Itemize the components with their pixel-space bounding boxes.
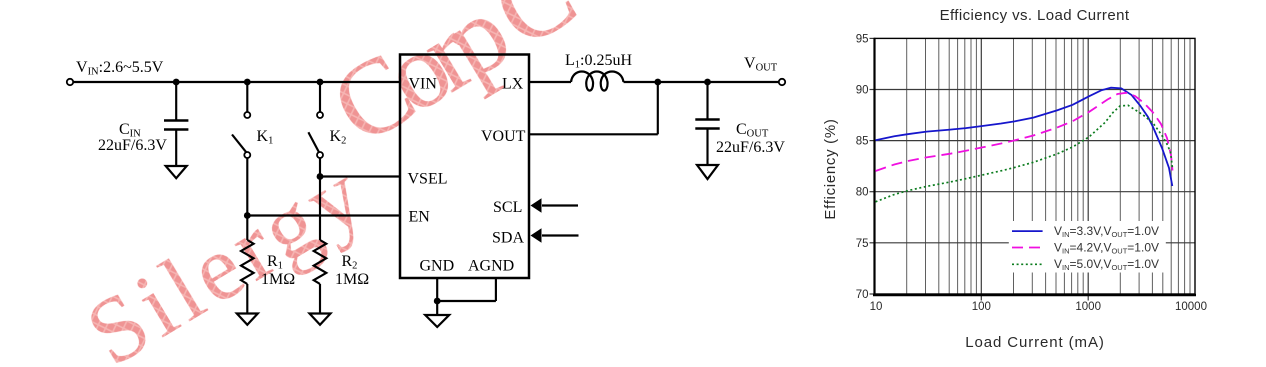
ground (CIN) — [166, 166, 187, 178]
curve blue VIN=3.3V — [876, 88, 1173, 186]
y axis labels — [856, 33, 869, 301]
major gridline 1000 — [1087, 38, 1089, 300]
svg-text:VSEL: VSEL — [408, 171, 448, 188]
svg-text:GND: GND — [420, 258, 455, 275]
svg-text:10000: 10000 — [1175, 301, 1207, 313]
watermark "Silergy" — [70, 0, 591, 367]
svg-text:1000: 1000 — [1075, 301, 1101, 313]
svg-text:LX: LX — [502, 76, 524, 93]
legend — [1009, 221, 1166, 273]
legend green sample — [1012, 263, 1043, 265]
resistor R2 — [314, 240, 327, 284]
SCL arrow — [542, 204, 578, 206]
switch K1 — [246, 82, 248, 112]
wire GND pin — [436, 278, 438, 301]
ground (R1) — [237, 314, 258, 325]
wire: input rail to IC VIN pin — [74, 81, 401, 83]
legend magenta sample — [1012, 247, 1043, 249]
wire LX to inductor — [529, 81, 571, 83]
svg-text:Efficiency (%): Efficiency (%) — [822, 118, 839, 219]
horizontal gridline 85 — [875, 140, 1196, 142]
svg-text:1MΩ: 1MΩ — [335, 271, 369, 288]
svg-text:SCL: SCL — [493, 199, 522, 216]
svg-text:22uF/6.3V: 22uF/6.3V — [98, 137, 167, 154]
horizontal gridline 75 — [875, 242, 1196, 244]
svg-text:80: 80 — [856, 187, 869, 199]
svg-text:10: 10 — [870, 301, 883, 313]
node: LX/VOUT junction — [654, 79, 661, 86]
x axis labels — [870, 301, 1207, 313]
SDA arrowhead — [531, 228, 542, 242]
node: VSEL junction — [317, 173, 324, 180]
switch K2 — [319, 82, 321, 112]
IC U1 box — [400, 55, 529, 279]
inductor L1 — [571, 72, 624, 91]
node: K1 top — [244, 79, 251, 86]
major gridline 100 — [980, 38, 982, 300]
svg-text:95: 95 — [856, 33, 869, 45]
resistor R1 — [241, 240, 254, 284]
chart frame — [873, 38, 1196, 296]
ground (COUT) — [697, 165, 718, 179]
output terminal VOUT — [779, 79, 785, 85]
svg-text:22uF/6.3V: 22uF/6.3V — [716, 139, 785, 156]
svg-text:Load Current (mA): Load Current (mA) — [965, 334, 1105, 351]
svg-text:70: 70 — [856, 289, 869, 301]
svg-text:VOUT: VOUT — [481, 128, 526, 145]
y ticks — [870, 37, 875, 39]
input terminal VIN — [67, 79, 73, 85]
node: K2 top — [317, 79, 324, 86]
svg-text:90: 90 — [856, 85, 869, 97]
svg-text:VIN=3.3V,VOUT=1.0V: VIN=3.3V,VOUT=1.0V — [1054, 224, 1159, 239]
capacitor CIN — [164, 119, 188, 122]
ground (R2) — [310, 314, 331, 325]
wire EN — [247, 214, 400, 216]
svg-text:VIN=4.2V,VOUT=1.0V: VIN=4.2V,VOUT=1.0V — [1054, 241, 1159, 256]
wire inductor to VOUT terminal — [624, 81, 779, 83]
svg-text:SDA: SDA — [492, 230, 524, 247]
curve green VIN=5.0V — [876, 105, 1173, 202]
SDA arrow — [542, 234, 579, 236]
wire AGND pin — [495, 278, 497, 301]
SCL arrowhead — [531, 198, 542, 212]
node: GND junction — [434, 298, 441, 305]
svg-text:100: 100 — [972, 301, 991, 313]
wire: CIN vertical — [175, 82, 177, 120]
chart text — [822, 7, 1207, 351]
svg-text:85: 85 — [856, 136, 869, 148]
svg-text:AGND: AGND — [468, 258, 514, 275]
wire VSEL — [320, 175, 400, 177]
chart gridlines — [907, 38, 1190, 294]
svg-text:75: 75 — [856, 238, 869, 250]
curve magenta VIN=4.2V — [876, 93, 1173, 171]
horizontal gridline 90 — [875, 89, 1196, 91]
svg-text:VIN: VIN — [409, 76, 438, 93]
svg-text:1MΩ: 1MΩ — [261, 271, 295, 288]
horizontal gridline 80 — [875, 191, 1196, 193]
svg-text:Efficiency vs. Load Current: Efficiency vs. Load Current — [940, 7, 1130, 24]
node: COUT top — [704, 79, 711, 86]
capacitor COUT — [695, 118, 719, 121]
schematic labels — [76, 52, 785, 288]
svg-text:VIN=5.0V,VOUT=1.0V: VIN=5.0V,VOUT=1.0V — [1054, 257, 1159, 272]
node: EN junction — [244, 212, 251, 219]
node: CIN top — [173, 79, 180, 86]
legend blue sample — [1012, 230, 1043, 232]
wire COUT vertical — [706, 82, 708, 119]
ground (IC) — [425, 315, 449, 327]
wire VOUT pin riser — [529, 133, 658, 135]
svg-text:EN: EN — [409, 209, 431, 226]
